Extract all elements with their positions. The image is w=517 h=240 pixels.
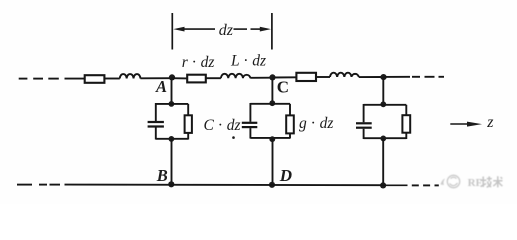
resistor r·dz box (left dashed section)	[85, 75, 105, 83]
inductor L·dz coil (left dashed section)	[120, 74, 141, 78]
z axis arrow	[450, 122, 482, 127]
wire node C down to shunt 2	[271, 78, 273, 104]
wire third top node down to shunt 3	[382, 77, 384, 105]
bottom third junction dot	[380, 182, 386, 188]
third top junction dot	[380, 74, 386, 80]
dimension extension bar at node C	[271, 13, 273, 50]
wire left inductor to node A	[140, 77, 171, 79]
svg-text:C: C	[277, 77, 289, 96]
wire inductor to third node	[359, 76, 384, 78]
wire shunt 3 down to bottom rail	[382, 138, 384, 185]
wire inductor to node C	[250, 77, 272, 79]
node C junction dot	[269, 74, 275, 80]
shunt 2 bottom rail	[250, 137, 290, 139]
wire bottom-left dashed lead-in	[17, 184, 60, 186]
watermark text RF技术	[468, 176, 503, 189]
svg-text:r · dz: r · dz	[182, 54, 215, 71]
shunt 1 top junction dot	[169, 101, 175, 107]
capacitor branch (shunt 3)	[356, 104, 372, 139]
svg-text:C · dz: C · dz	[204, 117, 241, 134]
shunt 3 top rail	[364, 104, 407, 106]
shunt 2 top junction dot	[269, 100, 275, 106]
wire top left solid segment	[65, 78, 86, 80]
wire resistor to inductor (first section)	[206, 77, 221, 79]
resistor r·dz box (second section)	[296, 73, 316, 81]
watermark logo	[441, 175, 460, 187]
wire third node to right dashed lead-out	[384, 76, 411, 78]
wire top-left dashed lead-in	[19, 78, 59, 80]
dimension arrow right	[234, 27, 272, 32]
svg-text:g · dz: g · dz	[299, 115, 333, 132]
node A junction dot	[169, 74, 175, 80]
inductor L·dz coil (first section)	[221, 74, 250, 78]
shunt 2 bottom junction dot	[269, 136, 275, 142]
wire shunt 1 down to node B	[171, 139, 173, 185]
node D junction dot	[269, 182, 275, 188]
stray print dot under C·dz	[232, 136, 235, 139]
shunt 1 top rail	[156, 103, 188, 105]
capacitor branch (shunt 2)	[242, 103, 257, 139]
shunt 1 bottom junction dot	[169, 136, 175, 142]
wire top-right dashed lead-out	[412, 76, 444, 78]
wire node A down to shunt 1	[171, 78, 173, 104]
svg-text:RF: RF	[468, 177, 483, 189]
svg-text:z: z	[486, 114, 494, 131]
dimension arrow left	[173, 27, 215, 32]
wire bottom rail solid	[65, 184, 408, 187]
svg-text:A: A	[155, 77, 167, 96]
svg-text:L · dz: L · dz	[230, 53, 266, 70]
shunt 1 bottom rail	[156, 138, 188, 140]
conductance box branch (shunt 1)	[185, 104, 192, 140]
wire shunt 2 down to node D	[272, 139, 274, 186]
wire resistor to inductor (second section)	[316, 76, 330, 78]
svg-text:dz: dz	[219, 22, 234, 39]
capacitor C·dz branch (shunt 1)	[148, 103, 164, 140]
inductor L·dz coil (second section)	[330, 73, 359, 77]
wire between left resistor and left inductor	[104, 78, 119, 80]
svg-text:D: D	[279, 166, 292, 185]
wire node A to resistor r·dz	[172, 77, 188, 79]
svg-text:B: B	[156, 166, 168, 185]
wire node C to resistor (second section)	[273, 76, 297, 78]
resistor r·dz box (first section)	[187, 75, 206, 83]
conductance g·dz box branch (shunt 2)	[286, 104, 294, 139]
shunt 2 top rail	[250, 103, 290, 105]
dimension extension bar at node A	[171, 13, 173, 50]
shunt 3 bottom rail	[364, 137, 407, 139]
wire bottom-right dashed lead-out	[412, 184, 439, 186]
shunt 3 top junction dot	[380, 101, 386, 107]
conductance box branch (shunt 3)	[402, 105, 410, 139]
shunt 3 bottom junction dot	[380, 136, 386, 142]
node B junction dot	[168, 181, 174, 187]
